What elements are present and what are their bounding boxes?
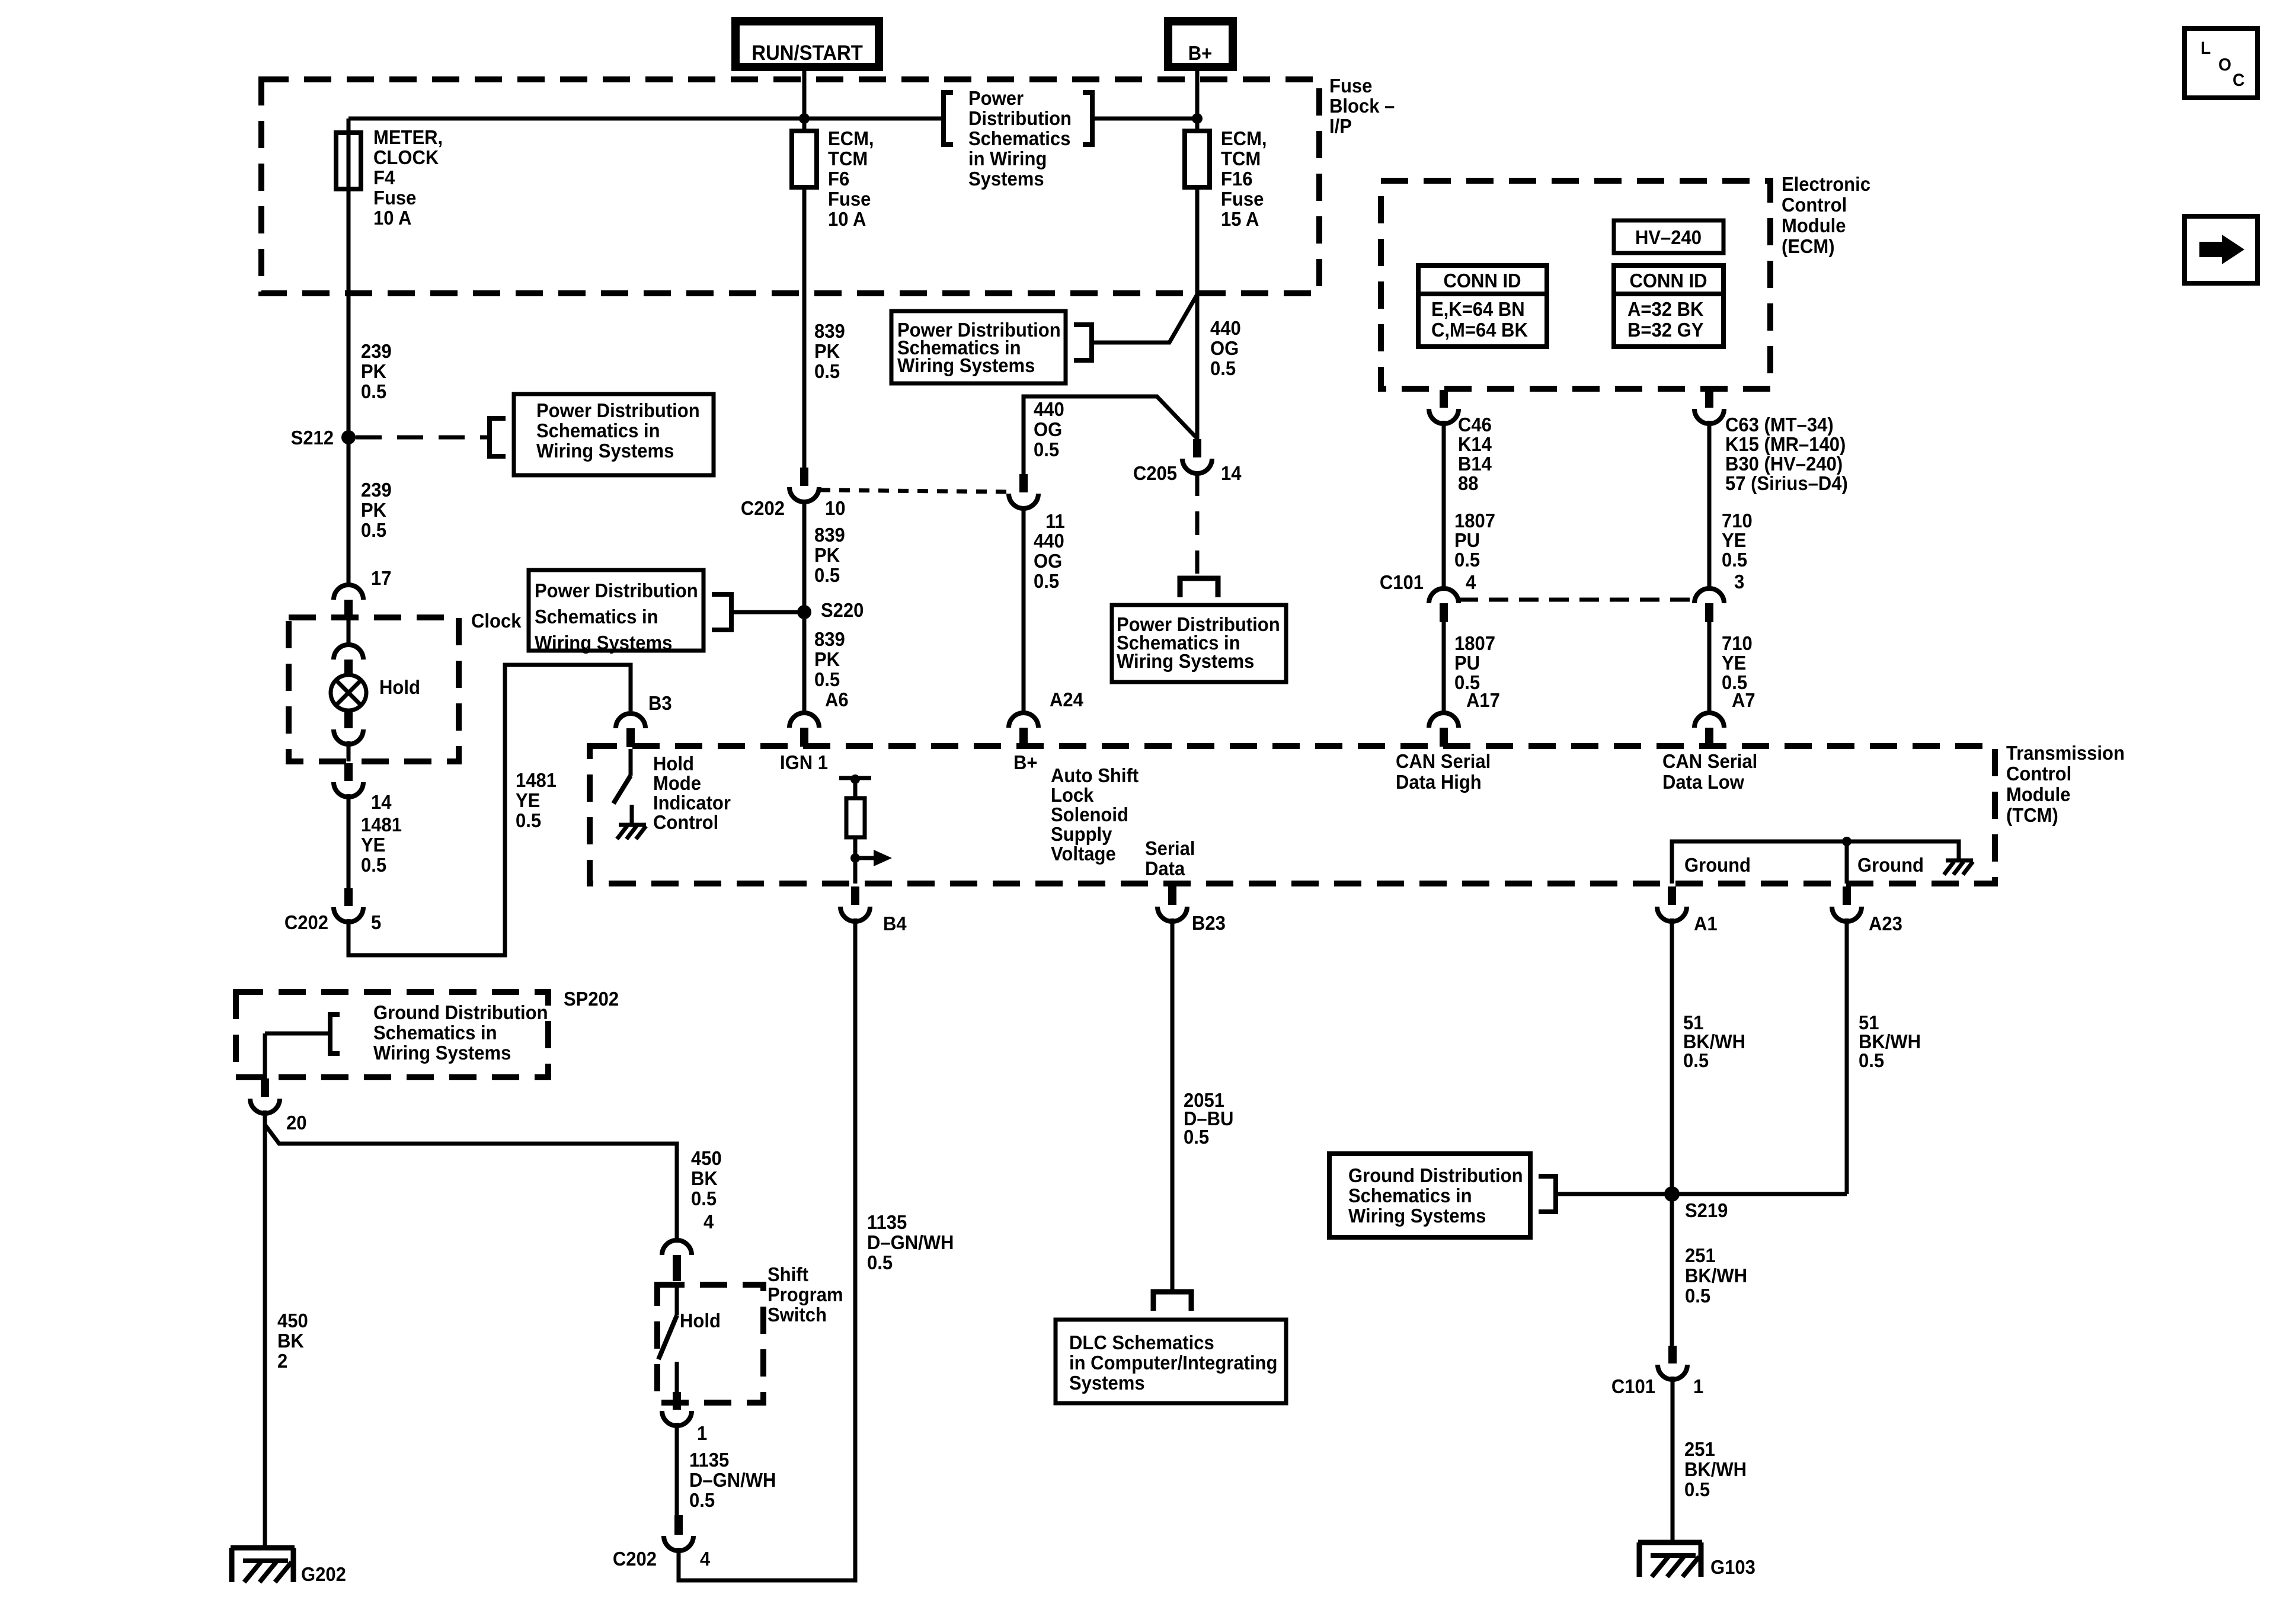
label pin number 17 (371, 567, 392, 589)
fuse F6 (792, 131, 817, 187)
label wire 239 PK 0.5 (a) (361, 340, 392, 402)
LOC legend icon (2185, 28, 2257, 98)
svg-text:F4: F4 (373, 167, 395, 188)
connector C101 pin 4 (1429, 588, 1459, 622)
svg-text:0.5: 0.5 (1683, 1049, 1709, 1071)
svg-text:F16: F16 (1221, 168, 1252, 190)
label pin number 3 (C101) (1734, 571, 1744, 593)
connector TCM pin A1 (1657, 886, 1718, 934)
svg-text:K14: K14 (1458, 433, 1492, 455)
svg-text:B30 (HV–240): B30 (HV–240) (1725, 453, 1843, 475)
wire 239 PK below S212 (347, 437, 351, 583)
svg-text:839: 839 (814, 628, 845, 650)
svg-text:0.5: 0.5 (1210, 357, 1236, 379)
label wire 1481 YE 0.5 (b) (516, 769, 557, 831)
svg-text:Mode: Mode (653, 772, 701, 794)
svg-text:4: 4 (1466, 571, 1476, 593)
label wire 710 YE 0.5 (b) (1722, 632, 1753, 693)
junction at resistor top (850, 774, 860, 784)
svg-text:A24: A24 (1050, 689, 1083, 710)
svg-text:0.5: 0.5 (1454, 549, 1480, 571)
wire C202-4 to B4 wire (679, 918, 855, 1580)
svg-text:Fuse: Fuse (1221, 188, 1264, 210)
ground G202 (231, 1548, 346, 1585)
svg-text:0.5: 0.5 (814, 564, 840, 586)
svg-text:17: 17 (371, 567, 392, 589)
svg-text:B3: B3 (648, 692, 672, 714)
connector clock pin 17 (334, 585, 363, 617)
svg-text:Power: Power (968, 87, 1024, 109)
switch hold mode indicator (613, 749, 631, 804)
svg-text:PK: PK (814, 340, 840, 362)
svg-text:Schematics: Schematics (968, 127, 1070, 149)
svg-text:CONN ID: CONN ID (1630, 270, 1707, 292)
label pin number 4 (C101) (1466, 571, 1476, 593)
label wire 251 BK/WH 0.5 (b) (1684, 1438, 1747, 1500)
svg-text:5: 5 (371, 911, 381, 933)
svg-text:BK/WH: BK/WH (1684, 1458, 1747, 1480)
svg-text:Supply: Supply (1051, 823, 1112, 845)
wire 839 PK from F6 (802, 187, 807, 468)
svg-text:0.5: 0.5 (361, 380, 386, 402)
label Hold Mode Indicator Control (653, 753, 731, 833)
wire bulb to box edge (347, 741, 351, 761)
label fuse F6 ECM TCM 10A (828, 127, 874, 230)
svg-text:Schematics in: Schematics in (536, 420, 660, 441)
svg-text:in Wiring: in Wiring (968, 148, 1047, 169)
svg-text:C46: C46 (1458, 414, 1492, 436)
reference box Power Distribution (S212) (490, 394, 714, 475)
svg-text:A6: A6 (825, 689, 849, 710)
wire 51 BK/WH (A1) (1670, 918, 1674, 1347)
svg-text:710: 710 (1722, 632, 1753, 654)
svg-text:Fuse: Fuse (828, 188, 871, 210)
label pin number 4 (C202) (700, 1548, 710, 1570)
svg-text:O: O (2218, 55, 2231, 75)
svg-text:88: 88 (1458, 472, 1479, 494)
wire 1135 D-GN/WH lower (675, 1423, 679, 1515)
reference text Ground Distribution (SP202) (330, 1001, 548, 1064)
svg-text:F6: F6 (828, 168, 849, 190)
fork to reference box (C205) (1180, 578, 1218, 597)
wire 1807 PU upper (1442, 421, 1446, 589)
label pin A6 (825, 689, 849, 710)
svg-text:C205: C205 (1133, 462, 1177, 484)
shift program switch dashed box (657, 1285, 763, 1403)
wire 440 OG to A24 (1022, 507, 1026, 711)
svg-text:Block –: Block – (1329, 95, 1395, 117)
svg-text:Clock: Clock (471, 610, 522, 632)
svg-text:710: 710 (1722, 510, 1753, 532)
svg-text:D–GN/WH: D–GN/WH (867, 1231, 954, 1253)
svg-text:440: 440 (1034, 530, 1064, 552)
connector C202 pin 4 (664, 1515, 693, 1551)
svg-text:ECM,: ECM, (1221, 127, 1267, 149)
svg-text:1: 1 (697, 1422, 707, 1444)
svg-text:C202: C202 (613, 1548, 657, 1570)
label pin number 4 (switch) (703, 1211, 714, 1233)
svg-text:S220: S220 (821, 599, 864, 621)
label wire 1807 PU 0.5 (a) (1454, 510, 1495, 571)
connector TCM pin A6 (789, 713, 819, 747)
svg-text:CAN Serial: CAN Serial (1662, 750, 1757, 772)
svg-text:B23: B23 (1192, 912, 1226, 934)
svg-text:Serial: Serial (1145, 837, 1195, 859)
switch shift program (658, 1285, 677, 1392)
svg-text:0.5: 0.5 (689, 1489, 715, 1511)
svg-text:C,M=64 BK: C,M=64 BK (1431, 319, 1528, 341)
resistor auto shift lock (846, 798, 865, 837)
connector TCM pin A23 (1832, 886, 1902, 934)
connector TCM pin B3 (616, 713, 645, 747)
label wire 450 BK 2 (277, 1310, 308, 1372)
wire S220 to reference bracket (731, 610, 804, 614)
svg-text:B=32 GY: B=32 GY (1627, 319, 1703, 341)
svg-text:D–GN/WH: D–GN/WH (689, 1469, 776, 1491)
connector ECM pin (CAN low) (1694, 390, 1724, 424)
fuse block I/P dashed module box (261, 79, 1319, 293)
svg-text:Solenoid: Solenoid (1051, 804, 1128, 825)
connector TCM pin B23 (1157, 886, 1226, 934)
junction ground rail A23 (1842, 837, 1851, 846)
svg-text:Control: Control (2006, 763, 2071, 785)
svg-text:1807: 1807 (1454, 510, 1495, 532)
label Ground (A23) (1857, 854, 1924, 876)
svg-text:Hold: Hold (379, 676, 420, 698)
label B+ (TCM pin) (1013, 751, 1038, 773)
svg-text:YE: YE (516, 789, 540, 811)
label fuse F16 ECM TCM 15A (1221, 127, 1267, 230)
svg-text:4: 4 (700, 1548, 710, 1570)
wire 450 BK 2 to G202 (263, 1110, 267, 1548)
svg-text:0.5: 0.5 (1722, 549, 1747, 571)
label wire 440 OG 0.5 (a) (1210, 317, 1241, 379)
label Ground (A1) (1684, 854, 1751, 876)
label Serial Data (1145, 837, 1195, 879)
svg-text:OG: OG (1034, 418, 1062, 440)
TCM dashed module box (590, 746, 1995, 884)
svg-text:14: 14 (1221, 462, 1242, 484)
connector C202 pin 5 (334, 888, 363, 922)
ECM dashed module box (1381, 181, 1770, 389)
label Shift Program Switch (768, 1263, 843, 1326)
wire 51 BK/WH (A23) (1672, 918, 1847, 1194)
fuse F4 (336, 133, 361, 189)
svg-text:B+: B+ (1188, 42, 1213, 64)
svg-text:Data High: Data High (1396, 771, 1482, 793)
svg-text:Hold: Hold (653, 753, 694, 774)
connector ECM pin (CAN high) (1429, 390, 1459, 424)
svg-text:3: 3 (1734, 571, 1744, 593)
svg-text:BK: BK (691, 1167, 718, 1189)
svg-text:CAN Serial: CAN Serial (1396, 750, 1491, 772)
wire 2051 D-BU (1171, 918, 1175, 1291)
svg-text:Wiring Systems: Wiring Systems (897, 354, 1035, 376)
svg-text:G202: G202 (301, 1563, 346, 1585)
svg-text:B4: B4 (883, 913, 907, 934)
clock dashed component box (289, 617, 459, 761)
wire 839 PK below C202 (802, 501, 807, 612)
svg-text:PU: PU (1454, 529, 1480, 551)
wire branch to pin 11 (1024, 396, 1197, 474)
connector TCM pin A17 (1429, 713, 1459, 747)
svg-text:C: C (2233, 71, 2244, 90)
svg-text:20: 20 (286, 1112, 307, 1134)
svg-text:Systems: Systems (968, 168, 1044, 190)
svg-text:C202: C202 (284, 911, 328, 933)
internal supply tick (839, 776, 871, 780)
svg-text:251: 251 (1685, 1244, 1716, 1266)
wire dashed S212 to reference (356, 436, 490, 440)
svg-text:(ECM): (ECM) (1782, 235, 1835, 257)
label pin A17 (1466, 689, 1500, 711)
wire into bulb (347, 617, 351, 645)
svg-text:S219: S219 (1685, 1199, 1728, 1221)
svg-text:A17: A17 (1466, 689, 1500, 711)
svg-text:E,K=64 BN: E,K=64 BN (1431, 298, 1525, 320)
arrow legend icon (2185, 216, 2257, 283)
svg-text:Control: Control (1782, 194, 1847, 216)
connector body C101 dashed link (1459, 598, 1694, 602)
wire A23 drop to border (1845, 841, 1849, 884)
wire branch 450 BK 0.5 (265, 1125, 677, 1241)
svg-text:Auto Shift: Auto Shift (1051, 764, 1139, 786)
svg-text:Program: Program (768, 1283, 843, 1305)
svg-text:10 A: 10 A (373, 207, 411, 229)
svg-text:Fuse: Fuse (373, 187, 416, 209)
HV-240 box (1614, 220, 1723, 253)
label wire 1807 PU 0.5 (b) (1454, 632, 1495, 693)
ground G103 (1638, 1542, 1755, 1578)
wire RUN/START to rail (802, 67, 807, 133)
svg-text:Power Distribution: Power Distribution (536, 399, 700, 421)
bulb socket bottom (334, 710, 363, 744)
svg-text:Wiring Systems: Wiring Systems (535, 632, 672, 654)
label wire 440 OG 0.5 (b) (1034, 398, 1064, 460)
wire to resistor (853, 778, 858, 798)
svg-text:YE: YE (1722, 652, 1746, 674)
svg-text:Wiring Systems: Wiring Systems (373, 1042, 511, 1064)
svg-text:239: 239 (361, 340, 392, 362)
wire 1481 YE routed to B3 (348, 665, 631, 955)
label wire 1135 D-GN/WH 0.5 (b) (689, 1449, 776, 1511)
svg-text:ECM,: ECM, (828, 127, 874, 149)
svg-text:METER,: METER, (373, 126, 443, 148)
svg-text:57 (Sirius–D4): 57 (Sirius–D4) (1725, 472, 1848, 494)
TCM internal ground rail (1672, 841, 1959, 884)
label pin number 20 (286, 1112, 307, 1134)
wire F4 drop (347, 119, 351, 437)
svg-text:Switch: Switch (768, 1304, 827, 1326)
label Clock (471, 610, 522, 632)
svg-text:Wiring Systems: Wiring Systems (536, 440, 674, 462)
label wire 251 BK/WH 0.5 (a) (1685, 1244, 1747, 1307)
label C101 (pin4 row) (1380, 571, 1424, 593)
svg-text:PK: PK (361, 499, 386, 521)
label wire 1481 YE 0.5 (a) (361, 814, 402, 876)
svg-text:10 A: 10 A (828, 208, 866, 230)
label pin number 10 (825, 497, 846, 519)
svg-text:839: 839 (814, 524, 845, 546)
svg-text:4: 4 (703, 1211, 714, 1233)
svg-text:A=32 BK: A=32 BK (1627, 298, 1703, 320)
svg-text:0.5: 0.5 (1685, 1285, 1710, 1307)
label pin number 14 (1221, 462, 1242, 484)
label CAN Serial Data High (1396, 750, 1491, 793)
svg-text:1481: 1481 (516, 769, 557, 791)
ground chassis (B3 switch) (617, 805, 646, 839)
connector SP202 pin 20 (250, 1078, 280, 1113)
splice S219 (1664, 1186, 1728, 1221)
bulb socket top (334, 645, 363, 675)
fuse F16 (1185, 131, 1210, 187)
svg-text:14: 14 (371, 791, 392, 813)
svg-text:OG: OG (1210, 337, 1239, 359)
label Hold (switch) (680, 1310, 721, 1331)
label pin number 5 (371, 911, 381, 933)
svg-text:10: 10 (825, 497, 846, 519)
svg-text:239: 239 (361, 479, 392, 501)
wire reference to S219 (1556, 1192, 1672, 1196)
svg-text:TCM: TCM (1221, 148, 1261, 169)
svg-text:PK: PK (814, 544, 840, 566)
svg-text:OG: OG (1034, 550, 1062, 572)
label wire 51 BK/WH 0.5 (A1) (1683, 1012, 1745, 1071)
indicator bulb Hold (331, 675, 420, 710)
label ECM pins C46 K14 B14 88 (1458, 414, 1492, 494)
svg-text:Indicator: Indicator (653, 792, 731, 814)
svg-text:TCM: TCM (828, 148, 868, 169)
svg-text:BK/WH: BK/WH (1685, 1265, 1747, 1286)
label wire 51 BK/WH 0.5 (A23) (1859, 1012, 1921, 1071)
svg-text:Power Distribution: Power Distribution (535, 580, 698, 601)
svg-text:A1: A1 (1694, 913, 1718, 934)
label C202 (pin5 row) (284, 911, 328, 933)
label wire 1135 D-GN/WH 0.5 (a) (867, 1211, 954, 1273)
connector C101 pin 3 (1694, 588, 1724, 622)
svg-text:C202: C202 (741, 497, 785, 519)
label C202 (pin4 row) (613, 1548, 657, 1570)
label fuse F4 METER CLOCK 10A (373, 126, 443, 229)
svg-text:C101: C101 (1611, 1375, 1655, 1397)
svg-text:0.5: 0.5 (361, 854, 386, 876)
svg-text:G103: G103 (1710, 1556, 1755, 1578)
junction at arrow (850, 853, 860, 863)
svg-text:440: 440 (1034, 398, 1064, 420)
svg-text:IGN 1: IGN 1 (780, 751, 828, 773)
svg-text:C101: C101 (1380, 571, 1424, 593)
svg-text:450: 450 (691, 1147, 722, 1169)
label C202 (pin10 row) (741, 497, 785, 519)
label wire 2051 D-BU 0.5 (1184, 1089, 1233, 1148)
svg-text:0.5: 0.5 (814, 360, 840, 382)
svg-text:in Computer/Integrating: in Computer/Integrating (1069, 1352, 1277, 1374)
svg-text:Hold: Hold (680, 1310, 721, 1331)
svg-text:Voltage: Voltage (1051, 843, 1116, 865)
connector switch pin 4 (662, 1240, 692, 1281)
svg-text:0.5: 0.5 (1034, 570, 1059, 592)
splice S220 (797, 599, 864, 621)
connector C202 pin 11 (1009, 474, 1038, 508)
svg-text:Ground Distribution: Ground Distribution (373, 1001, 548, 1023)
power feed box B+ (1168, 21, 1233, 67)
svg-text:PK: PK (361, 360, 386, 382)
svg-text:Lock: Lock (1051, 784, 1094, 806)
label C101 (pin1 row) (1611, 1375, 1655, 1397)
label wire 710 YE 0.5 (a) (1722, 510, 1753, 571)
junction rail at B+ (1192, 113, 1203, 124)
connector C101 pin 1 (1658, 1346, 1687, 1379)
label Auto Shift Lock Solenoid Supply Voltage (1051, 764, 1139, 865)
svg-text:0.5: 0.5 (361, 519, 386, 541)
label IGN 1 (780, 751, 828, 773)
svg-text:11: 11 (1045, 510, 1065, 532)
reference box Power Distribution (F16) (891, 311, 1092, 383)
svg-text:1: 1 (1693, 1375, 1703, 1397)
svg-text:C63 (MT–34): C63 (MT–34) (1725, 414, 1834, 436)
svg-text:Data Low: Data Low (1662, 771, 1744, 793)
svg-text:0.5: 0.5 (691, 1188, 717, 1209)
label wire 239 PK 0.5 (b) (361, 479, 392, 541)
connector C202 pin 10 (789, 468, 819, 502)
junction rail at F6 (799, 113, 810, 124)
svg-text:L: L (2201, 39, 2211, 58)
label pin number 14 (371, 791, 392, 813)
svg-text:1481: 1481 (361, 814, 402, 836)
label pin A7 (1732, 689, 1755, 711)
svg-text:SP202: SP202 (564, 988, 619, 1010)
svg-text:Module: Module (2006, 783, 2071, 805)
wire 710 YE upper (1707, 421, 1712, 589)
connector clock pin 14 (334, 763, 363, 797)
connector TCM pin A7 (1694, 713, 1724, 747)
label wire 839 PK 0.5 (a) (814, 320, 845, 382)
fuse block label Fuse Block - I/P (1329, 75, 1395, 137)
svg-text:B14: B14 (1458, 453, 1492, 475)
wire 1807 PU lower (1442, 622, 1446, 711)
fork to DLC box (1153, 1292, 1191, 1311)
wire 440 OG from F16 (1195, 187, 1200, 439)
label SP202 (564, 988, 619, 1010)
label pin B3 (648, 692, 672, 714)
splice S212 (291, 427, 356, 449)
svg-text:839: 839 (814, 320, 845, 342)
svg-text:BK: BK (277, 1330, 304, 1352)
svg-text:Wiring Systems: Wiring Systems (1117, 650, 1254, 672)
svg-text:S212: S212 (291, 427, 334, 449)
svg-text:HV–240: HV–240 (1635, 226, 1702, 248)
label pin number 11 (1045, 510, 1065, 532)
svg-text:440: 440 (1210, 317, 1241, 339)
svg-text:YE: YE (361, 834, 385, 856)
svg-text:K15 (MR–140): K15 (MR–140) (1725, 433, 1846, 455)
wire fuse rail horizontal (348, 117, 1197, 121)
svg-text:YE: YE (1722, 529, 1746, 551)
connector C205 pin 14 (1182, 439, 1212, 473)
svg-text:1135: 1135 (867, 1211, 907, 1233)
ECM module label (1782, 173, 1870, 257)
svg-text:Ground Distribution: Ground Distribution (1348, 1164, 1523, 1186)
connector switch pin 1 (662, 1392, 692, 1426)
svg-text:Control: Control (653, 811, 718, 833)
svg-text:Ground: Ground (1684, 854, 1751, 876)
svg-text:PK: PK (814, 648, 840, 670)
connector TCM pin B4 (840, 886, 907, 934)
svg-text:0.5: 0.5 (1859, 1049, 1884, 1071)
svg-text:1135: 1135 (689, 1449, 729, 1471)
ground chassis (TCM internal) (1944, 860, 1973, 875)
wire dashed C205 to reference (1195, 472, 1200, 574)
